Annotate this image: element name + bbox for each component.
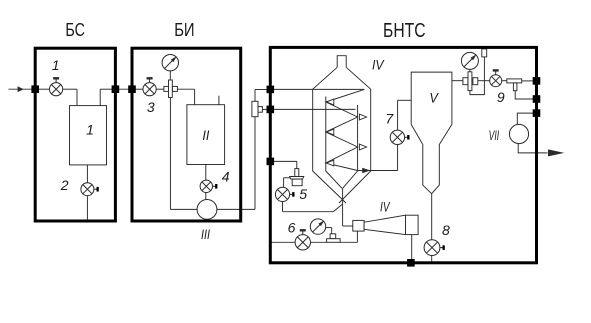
svg-text:6: 6 bbox=[288, 219, 296, 235]
svg-text:V: V bbox=[429, 89, 439, 105]
svg-text:5: 5 bbox=[299, 186, 307, 202]
svg-text:1: 1 bbox=[52, 57, 60, 73]
svg-text:БИ: БИ bbox=[174, 20, 194, 40]
svg-text:2: 2 bbox=[60, 177, 69, 193]
svg-text:9: 9 bbox=[497, 89, 505, 105]
svg-text:8: 8 bbox=[442, 222, 450, 238]
svg-text:4: 4 bbox=[222, 169, 230, 185]
svg-text:БНТС: БНТС bbox=[383, 20, 426, 42]
svg-text:3: 3 bbox=[147, 99, 155, 115]
svg-text:VII: VII bbox=[489, 127, 500, 143]
svg-text:III: III bbox=[201, 226, 210, 242]
svg-text:БС: БС bbox=[65, 20, 85, 40]
svg-text:IV: IV bbox=[372, 56, 385, 72]
svg-text:1: 1 bbox=[86, 121, 94, 137]
svg-text:IV: IV bbox=[380, 199, 391, 215]
svg-text:7: 7 bbox=[385, 111, 394, 127]
svg-text:II: II bbox=[202, 127, 209, 143]
